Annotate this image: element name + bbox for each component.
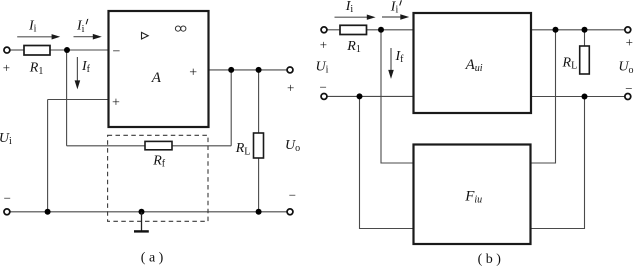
wire: Rf rail left segment [67,145,145,147]
node: inverting input junction [64,47,70,53]
svg-text:Rf: Rf [152,154,166,170]
wire: Rf rail up to output node [230,70,232,146]
wire: Aui output top (b) [531,29,625,31]
svg-text:Ui: Ui [0,131,12,147]
svg-text:If: If [81,59,91,75]
ground [134,212,149,232]
svg-text:−: − [625,81,632,96]
amplifier block Aui [414,13,532,113]
node: bottom rail at RL [256,209,262,215]
svg-text:+: + [189,65,197,80]
node: bottom rail at non-inverting branch [45,209,51,215]
svg-text:Ii: Ii [345,0,354,15]
svg-text:Uo: Uo [285,138,300,154]
wire: input terminal to R1 (b) [327,29,340,31]
svg-text:RL: RL [562,56,578,72]
wire: bottom rail [10,211,287,213]
wire: RL branch upper [258,70,260,133]
wire: Rf rail right segment [172,145,231,147]
svg-text:−: − [113,45,121,60]
svg-text:−: − [289,188,296,203]
wire: non-inverting input horizontal [48,99,109,101]
wire: bottom input rail (b) [327,95,413,97]
svg-text:+: + [287,80,294,95]
svg-text:+: + [626,34,633,49]
resistor RL (a) [254,133,264,158]
terminal: input - (b) [321,93,327,99]
svg-text:( a ): ( a ) [141,251,164,266]
wire: RL branch (b) [584,30,586,46]
node: top-right junction 2 at RL (b) [582,27,588,33]
current arrow If (b) [388,48,404,79]
svg-text:Ui: Ui [316,59,329,75]
svg-text:+: + [320,37,327,52]
wire: R1 to op-amp inverting input [50,49,109,51]
svg-text:Ii: Ii [28,18,37,34]
svg-text:( b ): ( b ) [478,252,502,267]
current arrow I'i (b) [382,0,409,20]
svg-text:R1: R1 [346,39,361,55]
terminal: input + (a) [4,47,10,53]
wire: inverting node down to Rf rail [66,50,68,146]
current arrow Ii (b) [335,0,376,20]
node: bottom-right junction at RL (b) [582,94,588,100]
terminal: output + (a) [287,67,293,73]
wire: RL branch lower [258,158,260,212]
svg-text:−: − [320,80,327,95]
svg-text:R1: R1 [29,61,44,77]
svg-text:If: If [395,49,405,65]
op-amp U1 (A) [109,11,209,127]
current arrow Ii (a) [17,18,60,39]
terminal: output + (b) [625,27,631,33]
terminal: output - (a) [287,209,293,215]
resistor Rf [145,141,172,149]
terminal: input - (a) [4,209,10,215]
dashed box: feedback network [108,135,208,221]
wire: RL node down to Fiu lower-right [531,97,585,229]
wire: bottom-left node down to Fiu lower-left [360,96,414,228]
node: R1 output junction (b) [378,27,384,33]
resistor R1 (a) [24,46,50,56]
resistor R1 (b) [340,25,367,34]
node: bottom-left junction (b) [357,93,363,99]
svg-text:−: − [4,190,11,205]
svg-text:Uo: Uo [618,60,633,76]
feedback block Fiu [414,145,531,245]
svg-text:Ii: Ii [390,0,399,16]
node: bottom rail at ground [139,209,145,215]
svg-text:RL: RL [235,141,251,157]
wire: Aui output bottom (b) [531,96,625,98]
wire: op-amp output [209,69,288,71]
node: output junction at Rf [228,67,234,73]
svg-text:+: + [3,60,10,75]
svg-text:+: + [112,96,120,111]
current arrow If (a) [75,57,91,89]
wire: input terminal to R1 [10,49,24,51]
wire: top node down to Fiu upper-left [381,30,414,163]
terminal: output - (b) [625,94,631,100]
node: output junction at RL [256,67,262,73]
wire: top-right node down to Fiu upper-right [531,30,556,163]
resistor RL (b) [580,46,590,74]
wire: R1 to Aui (b) [367,29,414,31]
wire: non-inverting input down to bottom rail [47,100,49,212]
svg-text:A: A [151,70,162,86]
node: top-right junction 1 (b) [553,27,559,33]
terminal: input + (b) [321,27,327,33]
svg-text:Ii: Ii [76,19,85,35]
current arrow I'i (a) [74,19,102,40]
